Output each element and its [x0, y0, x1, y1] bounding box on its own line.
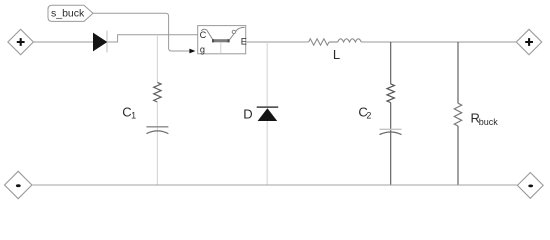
- wire C2 lower lead: [390, 103, 392, 185]
- inductor L ESR zigzag: [309, 39, 329, 45]
- diode D1 (series, anode left): [93, 31, 107, 53]
- svg-text:2: 2: [366, 111, 371, 121]
- node C1 top connection: [156, 35, 158, 83]
- wire freewheel diode top lead: [266, 42, 268, 107]
- wire zigzag to coils: [329, 41, 338, 43]
- port terminal - (input return): [5, 171, 32, 198]
- bottom return rail wire: [32, 184, 518, 186]
- wire R_buck top lead: [457, 42, 459, 103]
- wire C1 lower lead: [156, 102, 158, 185]
- port terminal + (input): [8, 29, 33, 55]
- resistor R_buck zigzag: [454, 103, 461, 126]
- wire emitter to inductor: [246, 41, 309, 43]
- label C1: [122, 105, 136, 121]
- svg-text:C: C: [200, 30, 207, 40]
- svg-text:buck: buck: [479, 117, 499, 127]
- port terminal + (output): [516, 29, 541, 54]
- wire inductor to output: [361, 41, 516, 43]
- label R_buck: [471, 111, 499, 127]
- svg-text:E: E: [241, 36, 247, 46]
- svg-text:L: L: [333, 47, 340, 62]
- wire input to diode: [33, 41, 93, 43]
- label C2: [358, 105, 371, 121]
- inductor L coils: [338, 39, 362, 42]
- wire s_buck to gate: [93, 13, 190, 51]
- wire freewheel diode bottom lead: [266, 121, 268, 185]
- IGBT switch block U1: [198, 26, 247, 55]
- goto tag s_buck: [48, 5, 93, 21]
- wire C2 top lead: [390, 42, 392, 84]
- diode D (freewheeling): [257, 107, 279, 121]
- svg-text:1: 1: [131, 111, 136, 121]
- port terminal - (output return): [517, 173, 543, 199]
- wire diode to collector: [107, 35, 197, 42]
- wire R_buck bottom lead: [457, 126, 459, 185]
- capacitor C1 ESR zigzag: [154, 82, 161, 102]
- capacitor C2 ESR zigzag: [387, 84, 394, 103]
- svg-text:g: g: [200, 45, 205, 55]
- capacitor C1 plates: [146, 127, 168, 134]
- svg-text:D: D: [243, 106, 252, 121]
- gate arrowhead: [189, 49, 195, 54]
- capacitor C2 plates: [380, 129, 402, 134]
- svg-text:s_buck: s_buck: [51, 8, 85, 20]
